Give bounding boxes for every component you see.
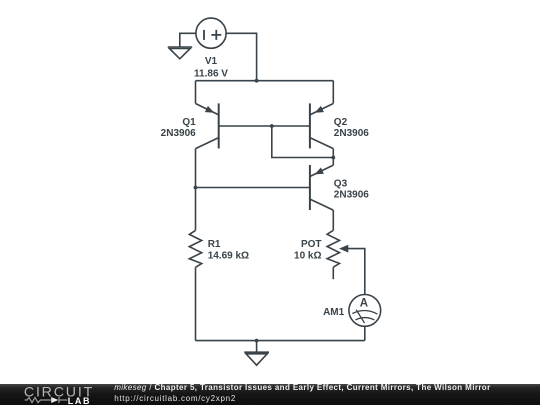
svg-text:R1: R1 xyxy=(208,239,221,250)
ground (top left) xyxy=(168,47,192,59)
svg-text:14.69 kΩ: 14.69 kΩ xyxy=(208,251,249,262)
wire junction down to R1 xyxy=(195,188,197,231)
CircuitLab logo xyxy=(0,384,112,405)
footer credit text line 1 xyxy=(114,384,490,392)
wire R1 to bottom rail xyxy=(195,267,197,340)
svg-text:AM1: AM1 xyxy=(323,307,345,318)
svg-text:10 kΩ: 10 kΩ xyxy=(294,251,321,262)
footer bar xyxy=(0,384,540,405)
svg-text:LAB: LAB xyxy=(68,396,91,405)
transistor Q1 (PNP 2N3906) xyxy=(196,103,219,148)
ground (bottom) xyxy=(244,352,269,365)
svg-text:A: A xyxy=(360,297,368,309)
wire Q1 collector down to junction xyxy=(195,149,197,188)
wire V1 plus to top rail xyxy=(226,33,257,80)
wire bottom rail xyxy=(196,340,365,342)
wire ammeter to bottom rail xyxy=(364,326,366,340)
junction dot (Q1 collector / Q3 base) xyxy=(194,186,198,190)
svg-text:2N3906: 2N3906 xyxy=(161,128,196,139)
junction dot (base rail tap) xyxy=(270,124,274,128)
svg-text:V1: V1 xyxy=(205,56,218,67)
svg-text:POT: POT xyxy=(301,239,322,250)
potentiometer POT xyxy=(327,230,348,279)
wire top rail xyxy=(196,80,334,82)
wire junction to Q3 emitter xyxy=(332,158,334,166)
wire Q1 base to Q2 base xyxy=(219,125,310,127)
svg-text:Q1: Q1 xyxy=(182,117,196,128)
junction dot (Q2 collector / Q3 emitter) xyxy=(331,156,335,160)
wire rail to Q2 emitter xyxy=(332,81,334,104)
svg-text:Q3: Q3 xyxy=(334,178,348,189)
svg-text:2N3906: 2N3906 xyxy=(334,128,369,139)
wire Q2 collector down xyxy=(332,149,334,158)
wire rail to Q1 emitter xyxy=(195,81,197,104)
junction dot (bottom ground tap) xyxy=(255,339,259,343)
voltage source V1 xyxy=(196,18,226,48)
ammeter AM1 xyxy=(349,295,381,327)
wire POT wiper to ammeter xyxy=(348,249,365,295)
svg-text:Q2: Q2 xyxy=(334,117,348,128)
footer credit text line 2 xyxy=(114,395,236,403)
svg-text:2N3906: 2N3906 xyxy=(334,189,369,200)
wire bottom rail to ground xyxy=(256,341,258,353)
resistor R1 xyxy=(189,230,201,267)
wire V1 minus to ground xyxy=(180,33,196,47)
transistor Q2 (PNP 2N3906) xyxy=(310,103,333,148)
wire Q3 collector to POT xyxy=(332,210,334,230)
junction dot (V1 to rail) xyxy=(255,79,259,83)
svg-text:11.86 V: 11.86 V xyxy=(194,68,228,79)
wire base tap to Q2 collector xyxy=(272,126,334,158)
transistor Q3 (PNP 2N3906) xyxy=(310,165,333,210)
wire Q3 base to left rail xyxy=(196,187,310,189)
